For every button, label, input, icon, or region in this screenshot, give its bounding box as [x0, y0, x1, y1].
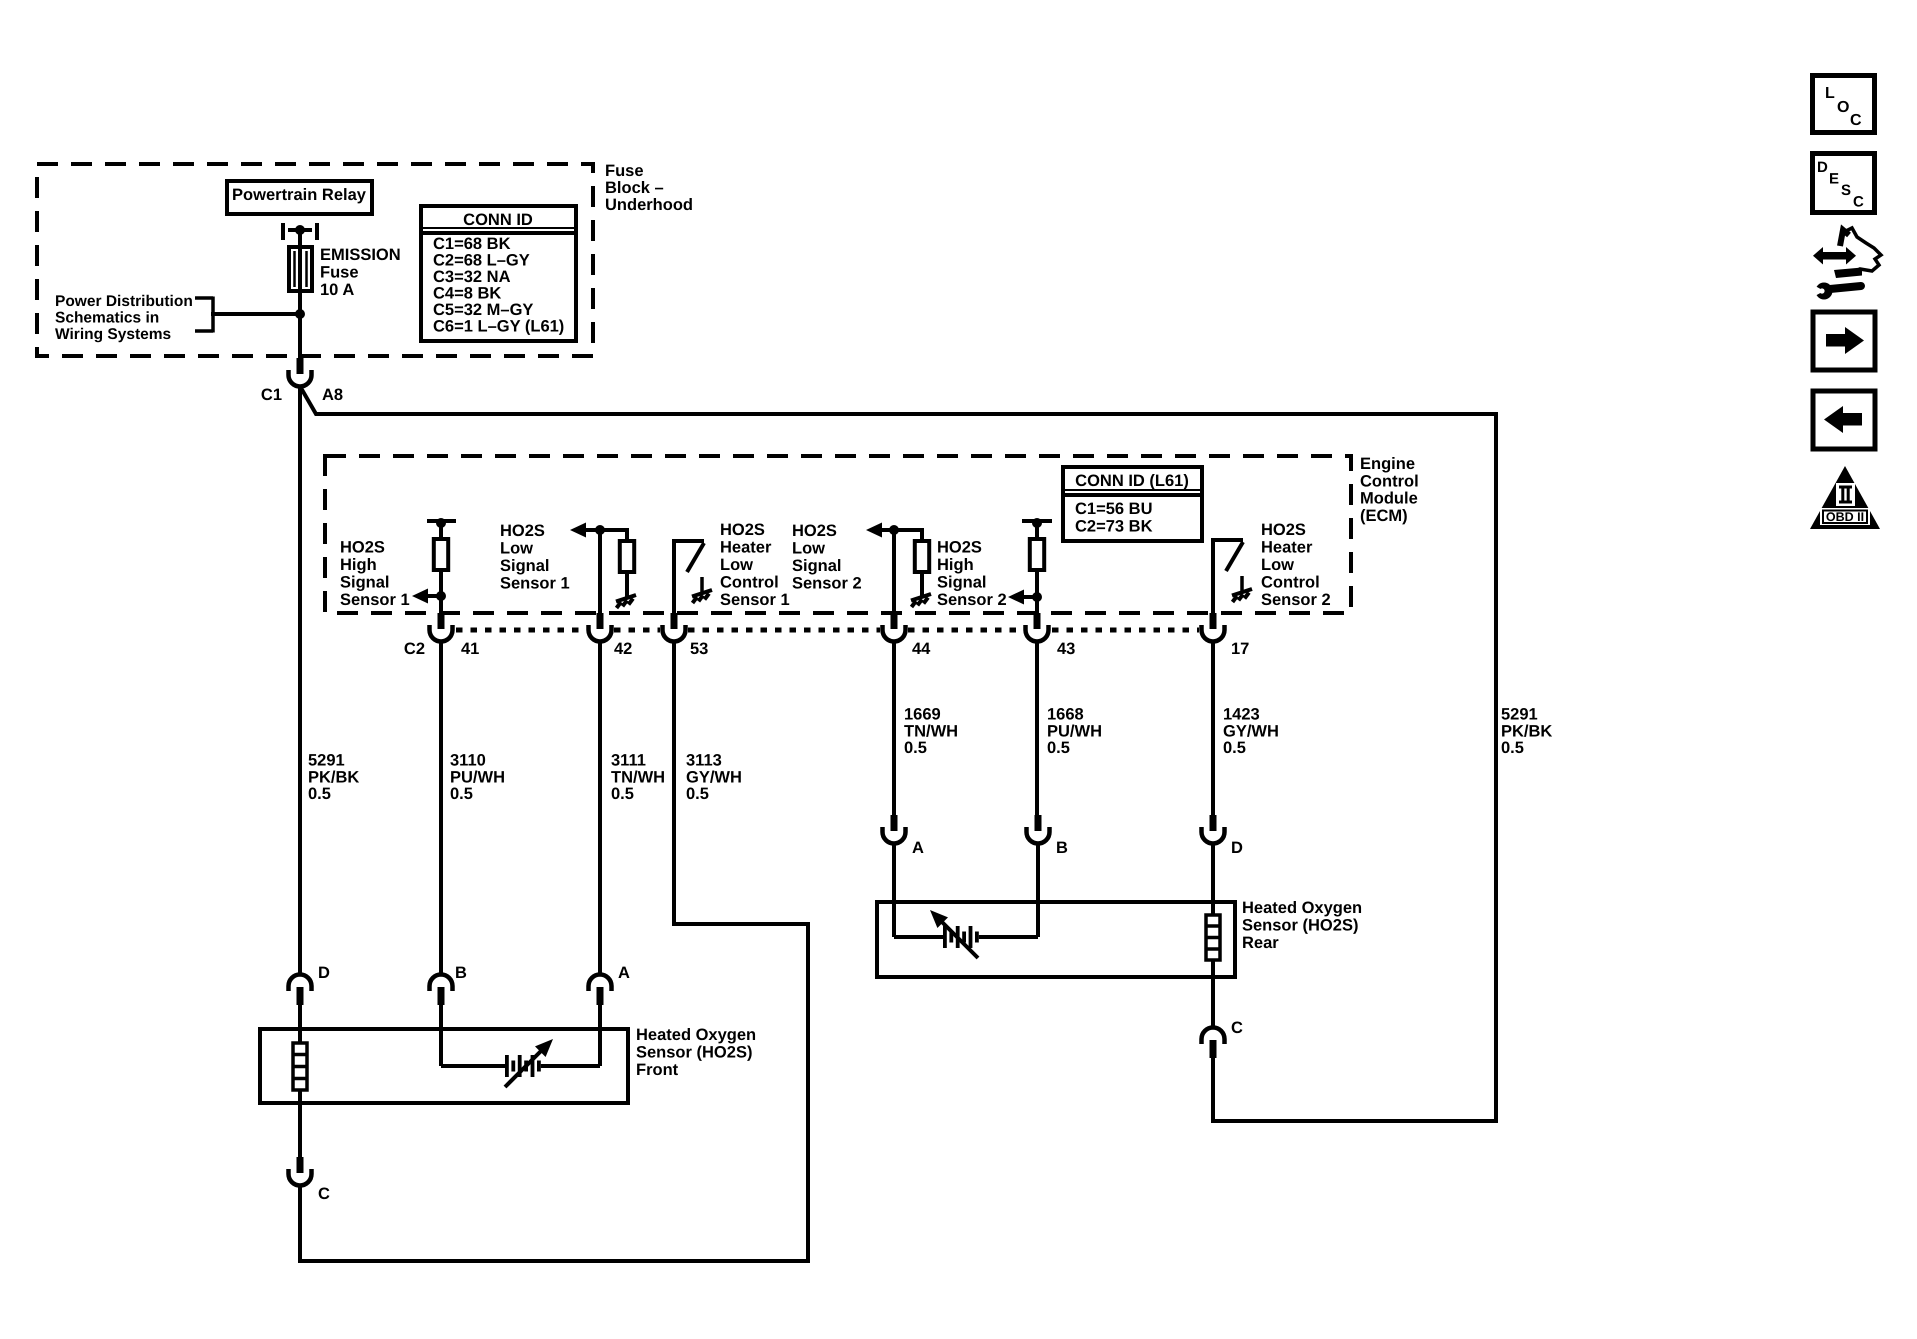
svg-text:Powertrain Relay: Powertrain Relay	[232, 186, 367, 204]
svg-text:Sensor 1: Sensor 1	[500, 575, 570, 593]
svg-text:HO2S: HO2S	[792, 522, 837, 540]
svg-text:10 A: 10 A	[320, 281, 354, 299]
svg-text:42: 42	[614, 640, 632, 658]
svg-text:0.5: 0.5	[1223, 739, 1246, 757]
svg-text:0.5: 0.5	[611, 785, 634, 803]
svg-text:D: D	[1817, 159, 1828, 176]
svg-text:Sensor 2: Sensor 2	[937, 591, 1007, 609]
svg-text:PK/BK: PK/BK	[1501, 722, 1552, 740]
svg-text:Heated Oxygen: Heated Oxygen	[636, 1026, 756, 1044]
svg-text:OBD II: OBD II	[1826, 510, 1864, 524]
svg-text:Heater: Heater	[1261, 539, 1313, 557]
svg-text:Block –: Block –	[605, 179, 664, 197]
svg-text:C: C	[318, 1185, 330, 1203]
svg-text:0.5: 0.5	[450, 785, 473, 803]
svg-text:0.5: 0.5	[904, 739, 927, 757]
svg-text:C6=1 L–GY (L61): C6=1 L–GY (L61)	[433, 318, 564, 336]
svg-text:(ECM): (ECM)	[1360, 507, 1408, 525]
svg-text:Control: Control	[720, 574, 779, 592]
svg-text:C: C	[1853, 194, 1864, 211]
svg-text:High: High	[340, 556, 377, 574]
svg-text:Heater: Heater	[720, 539, 772, 557]
svg-text:3111: 3111	[611, 752, 646, 770]
svg-text:C1=68 BK: C1=68 BK	[433, 235, 511, 253]
svg-text:S: S	[1841, 182, 1851, 199]
svg-text:3113: 3113	[686, 752, 722, 770]
svg-text:Sensor 1: Sensor 1	[340, 591, 410, 609]
svg-text:O: O	[1837, 99, 1849, 116]
svg-text:5291: 5291	[1501, 706, 1538, 724]
svg-text:Wiring Systems: Wiring Systems	[55, 326, 171, 343]
svg-text:Sensor 2: Sensor 2	[792, 575, 862, 593]
svg-text:Sensor (HO2S): Sensor (HO2S)	[636, 1044, 752, 1062]
svg-text:C: C	[1850, 112, 1862, 129]
svg-text:Low: Low	[1261, 556, 1294, 574]
svg-text:A8: A8	[322, 386, 343, 404]
svg-text:Sensor (HO2S): Sensor (HO2S)	[1242, 917, 1358, 935]
svg-text:B: B	[455, 964, 467, 982]
svg-text:Signal: Signal	[792, 557, 842, 575]
svg-text:Schematics in: Schematics in	[55, 310, 159, 327]
svg-text:44: 44	[912, 640, 931, 658]
svg-text:0.5: 0.5	[686, 785, 709, 803]
svg-text:CONN ID: CONN ID	[463, 211, 533, 229]
svg-text:Engine: Engine	[1360, 455, 1415, 473]
svg-text:A: A	[618, 964, 630, 982]
svg-text:Underhood: Underhood	[605, 196, 693, 214]
svg-text:5291: 5291	[308, 752, 345, 770]
svg-text:Module: Module	[1360, 490, 1418, 508]
svg-text:Signal: Signal	[937, 574, 987, 592]
svg-text:C2=68 L–GY: C2=68 L–GY	[433, 252, 530, 270]
svg-text:C1: C1	[261, 386, 282, 404]
svg-text:PK/BK: PK/BK	[308, 768, 359, 786]
svg-text:C: C	[1231, 1019, 1243, 1037]
svg-text:HO2S: HO2S	[500, 522, 545, 540]
svg-text:B: B	[1056, 839, 1068, 857]
svg-text:Fuse: Fuse	[605, 162, 644, 180]
svg-text:PU/WH: PU/WH	[1047, 722, 1102, 740]
svg-text:GY/WH: GY/WH	[1223, 722, 1279, 740]
svg-text:TN/WH: TN/WH	[611, 768, 665, 786]
svg-text:Front: Front	[636, 1061, 679, 1079]
svg-text:1669: 1669	[904, 706, 941, 724]
svg-text:Signal: Signal	[340, 574, 390, 592]
svg-text:Control: Control	[1261, 574, 1320, 592]
svg-text:C2: C2	[404, 640, 425, 658]
svg-text:43: 43	[1057, 640, 1075, 658]
svg-text:C1=56 BU: C1=56 BU	[1075, 500, 1153, 518]
svg-text:0.5: 0.5	[1047, 739, 1070, 757]
svg-text:L: L	[1825, 85, 1835, 102]
svg-text:C3=32 NA: C3=32 NA	[433, 268, 511, 286]
svg-text:TN/WH: TN/WH	[904, 722, 958, 740]
svg-text:Power Distribution: Power Distribution	[55, 293, 193, 310]
svg-text:High: High	[937, 556, 974, 574]
svg-text:EMISSION: EMISSION	[320, 246, 401, 264]
svg-text:53: 53	[690, 640, 708, 658]
svg-text:HO2S: HO2S	[937, 539, 982, 557]
svg-text:Control: Control	[1360, 472, 1419, 490]
svg-text:A: A	[912, 839, 924, 857]
svg-text:3110: 3110	[450, 752, 486, 770]
svg-text:D: D	[1231, 839, 1243, 857]
svg-text:Signal: Signal	[500, 557, 550, 575]
svg-text:Rear: Rear	[1242, 934, 1279, 952]
svg-text:Low: Low	[720, 556, 753, 574]
svg-text:HO2S: HO2S	[340, 539, 385, 557]
svg-text:Low: Low	[792, 540, 825, 558]
svg-text:CONN ID (L61): CONN ID (L61)	[1075, 472, 1189, 490]
svg-text:Low: Low	[500, 540, 533, 558]
svg-text:1423: 1423	[1223, 706, 1260, 724]
svg-text:Sensor 2: Sensor 2	[1261, 591, 1331, 609]
svg-text:17: 17	[1231, 640, 1249, 658]
svg-text:D: D	[318, 964, 330, 982]
svg-text:1668: 1668	[1047, 706, 1084, 724]
svg-text:C5=32 M–GY: C5=32 M–GY	[433, 301, 533, 319]
svg-text:Heated Oxygen: Heated Oxygen	[1242, 899, 1362, 917]
svg-text:HO2S: HO2S	[720, 521, 765, 539]
svg-text:HO2S: HO2S	[1261, 521, 1306, 539]
svg-text:0.5: 0.5	[1501, 739, 1524, 757]
svg-text:41: 41	[461, 640, 479, 658]
svg-text:GY/WH: GY/WH	[686, 768, 742, 786]
svg-text:C2=73 BK: C2=73 BK	[1075, 518, 1153, 536]
svg-text:Sensor 1: Sensor 1	[720, 591, 790, 609]
svg-text:Fuse: Fuse	[320, 264, 359, 282]
svg-text:E: E	[1829, 171, 1839, 188]
svg-text:C4=8 BK: C4=8 BK	[433, 285, 501, 303]
svg-text:0.5: 0.5	[308, 785, 331, 803]
svg-text:PU/WH: PU/WH	[450, 768, 505, 786]
